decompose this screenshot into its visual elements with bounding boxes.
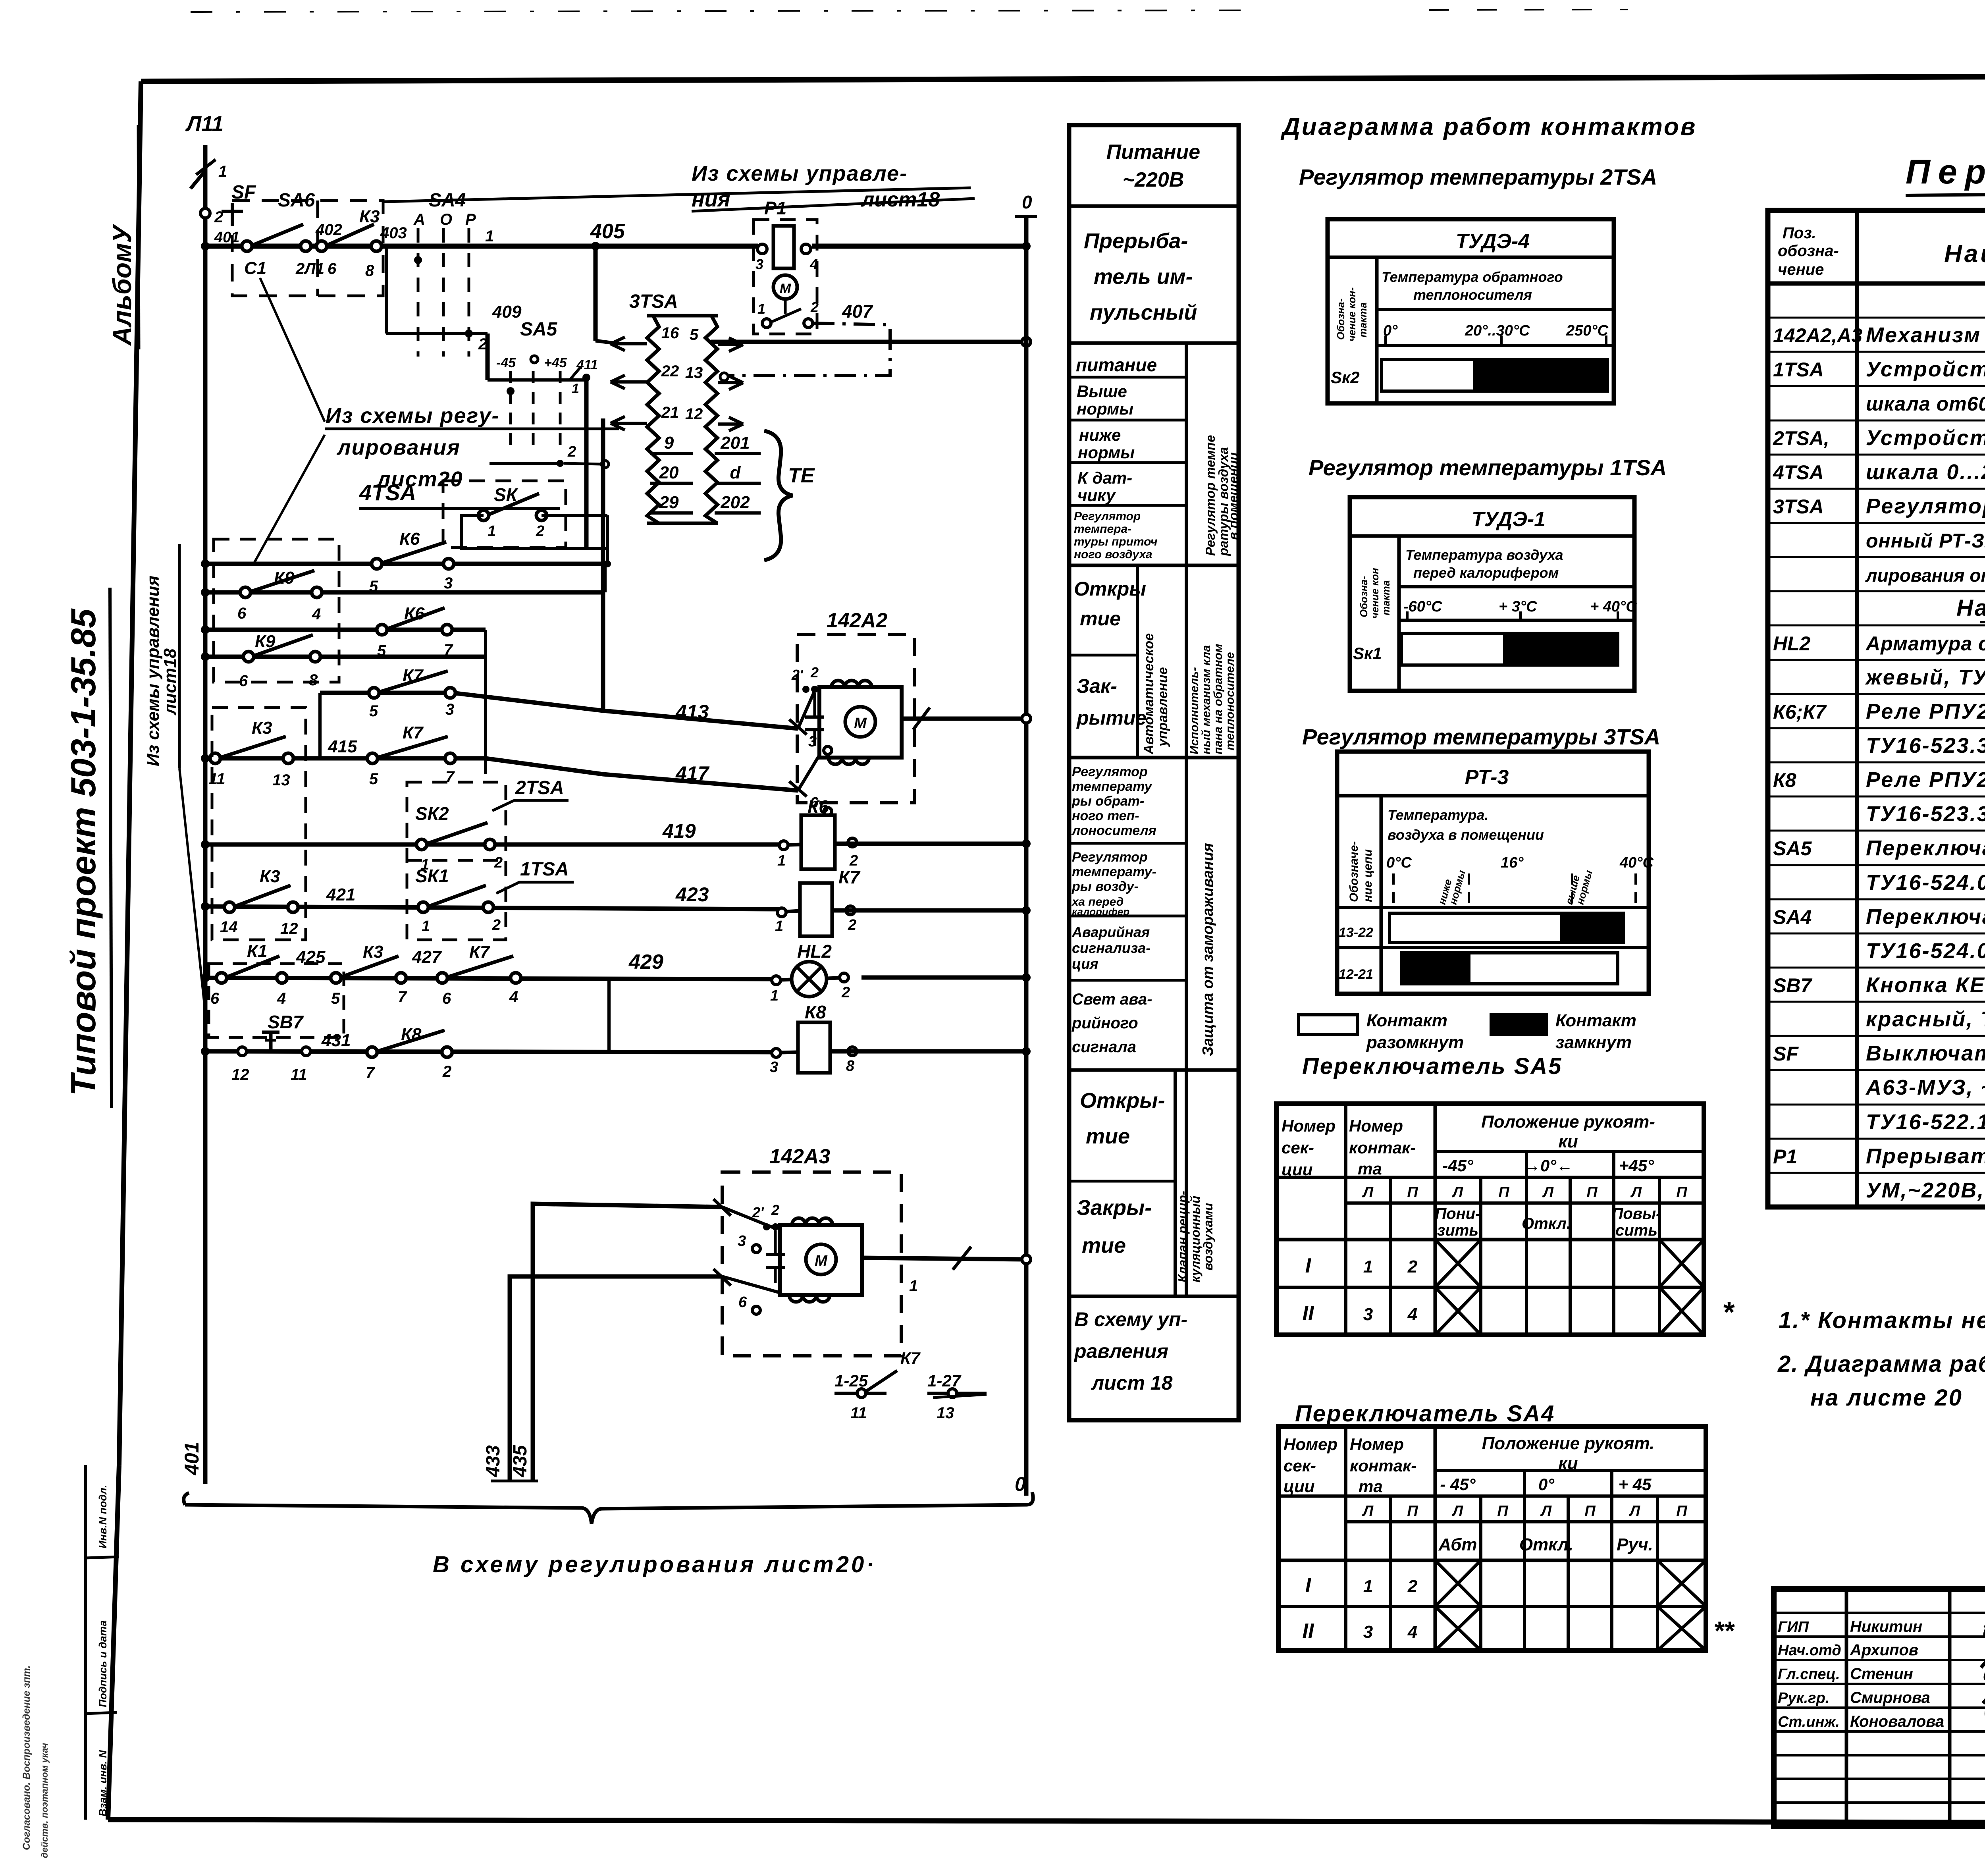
svg-text:ТУДЭ-4: ТУДЭ-4 xyxy=(1456,230,1530,253)
svg-text:Поз.: Поз. xyxy=(1783,224,1816,242)
svg-text:1: 1 xyxy=(1363,1577,1373,1596)
svg-text:замкнут: замкнут xyxy=(1555,1033,1632,1052)
svg-text:Закры-: Закры- xyxy=(1077,1196,1152,1220)
svg-text:2: 2 xyxy=(848,917,856,933)
svg-text:3ТSА: 3ТSА xyxy=(629,291,678,312)
parts list title xyxy=(1906,153,1985,195)
svg-text:К3: К3 xyxy=(363,942,384,962)
svg-text:К3: К3 xyxy=(252,718,272,738)
svg-text:2: 2 xyxy=(494,854,503,871)
svg-text:контак-: контак- xyxy=(1349,1138,1416,1157)
svg-text:перед калорифером: перед калорифером xyxy=(1413,565,1559,581)
svg-text:Л: Л xyxy=(1362,1503,1374,1519)
svg-text:409: 409 xyxy=(492,302,522,322)
svg-text:+ 3°С: + 3°С xyxy=(1499,598,1537,615)
svg-text:1: 1 xyxy=(770,987,779,1004)
SF breaker xyxy=(200,182,256,226)
wires 433 435 to actuator 142A3 xyxy=(483,1204,722,1482)
svg-text:7: 7 xyxy=(366,1064,375,1082)
svg-text:3: 3 xyxy=(770,1059,778,1076)
signal description column table xyxy=(1069,125,1241,1420)
svg-text:Р1: Р1 xyxy=(1773,1145,1797,1168)
svg-text:1: 1 xyxy=(1363,1257,1373,1276)
svg-text:Контакт: Контакт xyxy=(1555,1011,1636,1030)
svg-text:Реле РПУ2-362003УЗ,~220В: Реле РПУ2-362003УЗ,~220В xyxy=(1866,768,1985,792)
svg-text:4: 4 xyxy=(809,256,818,272)
svg-text:питание: питание xyxy=(1076,355,1157,375)
svg-text:ры обрат-: ры обрат- xyxy=(1072,794,1144,809)
svg-text:Контакт: Контакт xyxy=(1366,1011,1447,1030)
svg-text:теплоносителе: теплоносителе xyxy=(1224,652,1237,750)
svg-text:407: 407 xyxy=(842,301,873,322)
svg-text:1ТSА: 1ТSА xyxy=(520,859,569,880)
svg-text:SА4: SА4 xyxy=(1773,906,1812,928)
svg-text:Аварийная: Аварийная xyxy=(1072,924,1150,940)
svg-text:SА6: SА6 xyxy=(278,190,315,211)
svg-text:Откры: Откры xyxy=(1074,578,1146,600)
svg-text:5: 5 xyxy=(331,990,340,1007)
svg-text:142А2,А3: 142А2,А3 xyxy=(1773,324,1862,347)
svg-text:I: I xyxy=(1305,1254,1312,1277)
svg-text:та: та xyxy=(1358,1159,1382,1178)
svg-text:тие: тие xyxy=(1082,1234,1126,1257)
svg-text:чение кон: чение кон xyxy=(1369,568,1381,619)
svg-text:Подпись и дата: Подпись и дата xyxy=(97,1620,109,1707)
svg-text:-60°С: -60°С xyxy=(1403,598,1442,615)
svg-text:12: 12 xyxy=(231,1066,249,1084)
svg-text:3: 3 xyxy=(738,1233,746,1249)
svg-text:4: 4 xyxy=(1407,1622,1417,1642)
svg-text:411: 411 xyxy=(576,357,598,372)
svg-text:3: 3 xyxy=(1363,1305,1373,1324)
svg-text:ры возду-: ры возду- xyxy=(1072,879,1139,894)
svg-text:415: 415 xyxy=(328,737,357,756)
svg-text:0: 0 xyxy=(1022,192,1032,212)
impulse interrupter P1 xyxy=(754,198,873,334)
svg-text:Sк2: Sк2 xyxy=(1331,368,1360,387)
svg-text:Переключатель УП5311-С225УЗ: Переключатель УП5311-С225УЗ xyxy=(1866,905,1985,929)
svg-text:Переключатель SА4: Переключатель SА4 xyxy=(1295,1401,1555,1427)
svg-text:Диаграмма работ контактов: Диаграмма работ контактов xyxy=(1280,113,1697,141)
svg-text:12: 12 xyxy=(280,920,298,937)
svg-text:ного воздуха: ного воздуха xyxy=(1074,548,1152,561)
svg-text:Регулятор температуры 2ТSА: Регулятор температуры 2ТSА xyxy=(1299,164,1657,189)
svg-text:250°С: 250°С xyxy=(1566,322,1609,339)
auxiliary contact K7 1-27 xyxy=(927,1371,987,1422)
parts list table xyxy=(1768,210,1985,1207)
svg-text:+45°: +45° xyxy=(1619,1156,1654,1175)
svg-text:Откл.: Откл. xyxy=(1522,1215,1571,1232)
svg-text:Положение рукоят.: Положение рукоят. xyxy=(1482,1434,1655,1453)
switch SA5 position table xyxy=(1276,1104,1704,1335)
ladder row 2 (K9 6-4) xyxy=(201,564,605,623)
svg-text:Реле РПУ2-362023УЗ,~220В: Реле РПУ2-362023УЗ,~220В xyxy=(1866,700,1985,723)
svg-text:ТУ16-523.331-78: ТУ16-523.331-78 xyxy=(1866,734,1985,758)
svg-text:1: 1 xyxy=(485,228,494,245)
svg-text:разомкнут: разомкнут xyxy=(1366,1033,1464,1052)
relay K9 dashed enclosure xyxy=(214,539,339,682)
svg-text:ТЕ: ТЕ xyxy=(788,464,815,487)
svg-text:Л: Л xyxy=(1540,1503,1552,1519)
svg-text:ТУ16-524.074-75: ТУ16-524.074-75 xyxy=(1866,939,1985,963)
svg-text:402: 402 xyxy=(315,221,342,239)
svg-text:+ 45: + 45 xyxy=(1619,1475,1652,1494)
svg-text:ции: ции xyxy=(1284,1477,1314,1496)
svg-text:Перечень элементов: Перечень элементов xyxy=(1906,153,1985,191)
auxiliary contact K7 1-25 xyxy=(834,1349,921,1422)
svg-text:SА5: SА5 xyxy=(520,319,558,340)
svg-text:П: П xyxy=(1497,1503,1508,1519)
ladder row 429 (K1, 425, K3, 427, K7) xyxy=(201,941,776,1007)
svg-text:В схему регулирования лист20·: В схему регулирования лист20· xyxy=(433,1552,877,1577)
svg-text:12-21: 12-21 xyxy=(1339,967,1373,982)
svg-text:Пони-: Пони- xyxy=(1435,1205,1480,1222)
thermal regulator 3TSA zigzag xyxy=(143,162,1037,1577)
svg-text:сигнализа-: сигнализа- xyxy=(1072,940,1151,956)
row 401-405 main wire xyxy=(205,244,758,249)
svg-text:1: 1 xyxy=(218,163,227,180)
top edge dash-dot marks xyxy=(191,10,1243,12)
svg-text:Откры-: Откры- xyxy=(1080,1089,1165,1112)
svg-text:4ТSА: 4ТSА xyxy=(1773,461,1824,484)
svg-text:воздухами: воздухами xyxy=(1201,1203,1215,1271)
title block xyxy=(1713,1589,1985,1870)
svg-text:Наименование: Наименование xyxy=(1944,240,1985,268)
svg-text:На щите управления: На щите управления xyxy=(1956,595,1985,621)
svg-text:Типовой проект 503-1-35.85: Типовой проект 503-1-35.85 xyxy=(64,608,103,1096)
svg-text:Л: Л xyxy=(1630,1184,1642,1201)
svg-text:SF: SF xyxy=(1773,1043,1799,1065)
svg-text:2: 2 xyxy=(841,984,850,1001)
svg-text:2: 2 xyxy=(1407,1257,1418,1276)
svg-text:8: 8 xyxy=(846,1058,855,1074)
svg-text:201: 201 xyxy=(720,433,750,453)
wire zigzag-left down to 413 row xyxy=(601,418,605,711)
svg-text:+ 40°С: + 40°С xyxy=(1590,598,1637,615)
svg-text:2: 2 xyxy=(771,1202,779,1218)
svg-text:онный РТ-ЗУ4.2,град23, пределы: онный РТ-ЗУ4.2,град23, пределы регу- xyxy=(1866,530,1985,552)
svg-text:I: I xyxy=(1305,1574,1312,1597)
svg-text:Регулятор: Регулятор xyxy=(1072,850,1148,865)
svg-text:А63-МУЗ, ~220В, Iр=2.0А, Отс.1: А63-МУЗ, ~220В, Iр=2.0А, Отс.10 xyxy=(1865,1076,1985,1099)
svg-text:202: 202 xyxy=(720,493,750,512)
svg-text:К3: К3 xyxy=(260,867,280,886)
svg-text:421: 421 xyxy=(326,885,355,904)
svg-text:С1: С1 xyxy=(244,258,266,278)
svg-text:лоносителя: лоносителя xyxy=(1071,823,1156,838)
svg-text:435: 435 xyxy=(510,1445,531,1477)
svg-text:4: 4 xyxy=(1407,1305,1417,1324)
svg-text:управление: управление xyxy=(1155,667,1170,747)
svg-text:Коновалова: Коновалова xyxy=(1850,1713,1944,1730)
svg-text:433: 433 xyxy=(483,1445,504,1477)
svg-text:П: П xyxy=(1498,1184,1509,1201)
svg-text:Прерыба-: Прерыба- xyxy=(1084,229,1188,253)
svg-text:ного теп-: ного теп- xyxy=(1072,808,1139,823)
svg-text:П: П xyxy=(1676,1184,1687,1201)
svg-text:Исполнитель-: Исполнитель- xyxy=(1188,667,1201,754)
svg-text:М: М xyxy=(780,281,791,296)
notes text xyxy=(1722,1296,1985,1411)
thermostat 4TSA with contact SK xyxy=(359,480,607,549)
svg-text:Номер: Номер xyxy=(1284,1435,1337,1454)
svg-text:обозна-: обозна- xyxy=(1778,242,1839,260)
svg-text:413: 413 xyxy=(675,701,709,723)
svg-text:20: 20 xyxy=(659,463,679,482)
svg-text:температу: температу xyxy=(1072,779,1153,794)
svg-text:Архипов: Архипов xyxy=(1850,1641,1918,1659)
svg-text:2: 2 xyxy=(567,443,576,460)
svg-text:Sк1: Sк1 xyxy=(1353,644,1382,663)
svg-text:3: 3 xyxy=(1363,1622,1373,1642)
svg-text:1: 1 xyxy=(757,301,765,317)
svg-text:1.* Контакты не используются: 1.* Контакты не используются xyxy=(1779,1307,1985,1333)
svg-text:6: 6 xyxy=(210,990,220,1007)
svg-text:Нач.отд: Нач.отд xyxy=(1778,1642,1841,1659)
svg-text:шкала 0...250°С, ТУ25-02-28/07: шкала 0...250°С, ТУ25-02-28/074-78 xyxy=(1866,460,1985,484)
right bus 0 wire xyxy=(1024,216,1029,1496)
svg-text:11: 11 xyxy=(850,1404,867,1422)
svg-text:Рук.гр.: Рук.гр. xyxy=(1778,1690,1829,1706)
svg-text:равления: равления xyxy=(1073,1340,1168,1362)
svg-text:SВ7: SВ7 xyxy=(268,1012,304,1032)
svg-text:Регулятор температуры 1ТSА: Регулятор температуры 1ТSА xyxy=(1309,455,1667,480)
svg-text:зить: зить xyxy=(1437,1222,1478,1239)
svg-text:Переключатель SА5: Переключатель SА5 xyxy=(1302,1053,1562,1079)
svg-text:Выключатель автоматический: Выключатель автоматический xyxy=(1866,1041,1985,1065)
svg-text:4: 4 xyxy=(509,988,518,1006)
relay coil K7 xyxy=(775,867,1031,936)
svg-text:SК2: SК2 xyxy=(415,803,449,824)
svg-text:Устройство терморегулирующее Т: Устройство терморегулирующее ТУДЭ-1 xyxy=(1866,357,1985,381)
brace to regulation circuit sheet 20 xyxy=(184,1492,1033,1577)
ladder row 3 (K6 5-7) xyxy=(201,604,486,774)
svg-text:Из схемы управления: Из схемы управления xyxy=(143,576,163,766)
svg-text:тель им-: тель им- xyxy=(1094,265,1193,289)
svg-text:Абт: Абт xyxy=(1438,1535,1477,1554)
ladder row 4 (K9 6-8) xyxy=(201,632,486,690)
svg-text:Ст.инж.: Ст.инж. xyxy=(1778,1714,1840,1730)
svg-text:Арматура светосигнальная АСЛ11: Арматура светосигнальная АСЛ11У2, оран- xyxy=(1865,632,1985,655)
svg-text:К1: К1 xyxy=(247,941,268,961)
svg-text:423: 423 xyxy=(675,883,709,906)
svg-text:Температура воздуха: Температура воздуха xyxy=(1405,547,1563,563)
svg-text:Руч.: Руч. xyxy=(1617,1535,1653,1554)
label from regulation circuit sheet 20 xyxy=(254,278,619,563)
svg-text:5: 5 xyxy=(369,702,378,720)
svg-text:К7: К7 xyxy=(900,1349,921,1367)
svg-text:8: 8 xyxy=(309,671,318,689)
svg-text:3ТSА: 3ТSА xyxy=(1773,496,1824,518)
svg-text:нормы: нормы xyxy=(1077,399,1133,418)
svg-text:2: 2 xyxy=(536,523,544,540)
svg-text:ния: ния xyxy=(692,187,730,211)
svg-text:SВ7: SВ7 xyxy=(1773,974,1812,997)
svg-text:РТ-3: РТ-3 xyxy=(1465,766,1509,789)
svg-text:В схему уп-: В схему уп- xyxy=(1074,1308,1187,1330)
svg-text:ТУ16-524.074-75: ТУ16-524.074-75 xyxy=(1866,871,1985,895)
svg-text:УМ,~220В, ТУ50-58-76: УМ,~220В, ТУ50-58-76 xyxy=(1866,1178,1985,1202)
svg-text:II: II xyxy=(1303,1302,1314,1325)
junction to SA5/3TSA feed xyxy=(591,242,600,251)
svg-text:→0°←: →0°← xyxy=(1524,1156,1573,1175)
svg-text:ный механизм кла: ный механизм кла xyxy=(1200,645,1213,754)
svg-text:Регулятор: Регулятор xyxy=(1072,764,1148,779)
svg-text:0°: 0° xyxy=(1538,1475,1555,1494)
svg-text:тие: тие xyxy=(1080,607,1121,630)
svg-text:Устройство терморегулирующее Т: Устройство терморегулирующее ТУДЭ-4 xyxy=(1866,426,1985,450)
svg-text:Л: Л xyxy=(1451,1184,1463,1201)
svg-text:сигнала: сигнала xyxy=(1072,1038,1136,1056)
svg-text:429: 429 xyxy=(628,951,663,974)
svg-text:13-22: 13-22 xyxy=(1339,925,1373,940)
svg-text:Л11: Л11 xyxy=(185,112,224,136)
svg-text:2ТSА: 2ТSА xyxy=(515,777,564,798)
svg-text:П: П xyxy=(1584,1503,1596,1519)
svg-text:6: 6 xyxy=(442,990,451,1007)
svg-text:Смирнова: Смирнова xyxy=(1850,1689,1930,1706)
svg-text:13: 13 xyxy=(272,771,290,789)
left margin bottom strip xyxy=(21,1465,119,1858)
svg-text:403: 403 xyxy=(380,224,407,242)
svg-text:431: 431 xyxy=(321,1031,351,1050)
svg-text:142А2: 142А2 xyxy=(827,609,887,632)
svg-text:красный, ТУ16-526.407-79: красный, ТУ16-526.407-79 xyxy=(1866,1007,1985,1031)
svg-text:Из схемы управле-: Из схемы управле- xyxy=(692,162,908,185)
svg-text:ция: ция xyxy=(1072,956,1098,972)
wire 405 junction into 3TSA xyxy=(595,341,613,343)
svg-text:9: 9 xyxy=(664,433,674,453)
svg-text:6: 6 xyxy=(237,605,247,622)
relay coil K6 xyxy=(777,796,1031,869)
node 0 top of right bus xyxy=(1015,192,1037,216)
svg-text:Взам. инв. N: Взам. инв. N xyxy=(97,1750,109,1816)
svg-text:такта: такта xyxy=(1380,580,1392,615)
svg-text:Никитин: Никитин xyxy=(1850,1618,1922,1635)
svg-text:21: 21 xyxy=(661,404,679,421)
svg-text:1: 1 xyxy=(422,918,430,935)
svg-text:П: П xyxy=(1407,1184,1418,1201)
svg-text:НL2: НL2 xyxy=(797,941,832,962)
svg-text:К8: К8 xyxy=(805,1002,826,1022)
svg-text:8: 8 xyxy=(365,262,374,280)
svg-text:шкала от60°С до+40°С,ТУ25-02.2: шкала от60°С до+40°С,ТУ25-02.281074-.78 xyxy=(1866,393,1985,415)
wire between rows 429 and 431 xyxy=(607,978,611,1052)
svg-text:нормы: нормы xyxy=(1078,443,1135,462)
svg-text:3: 3 xyxy=(444,575,453,592)
svg-text:3: 3 xyxy=(445,701,454,718)
svg-text:Переключатель УП5311-А225УЗ: Переключатель УП5311-А225УЗ xyxy=(1866,836,1985,860)
svg-text:1-25: 1-25 xyxy=(834,1371,868,1390)
svg-text:К7: К7 xyxy=(469,942,491,962)
rotated label from control circuit sheet 18 left xyxy=(143,544,205,1012)
svg-text:Регулятор темпе: Регулятор темпе xyxy=(1203,435,1218,556)
svg-text:**: ** xyxy=(1713,1616,1735,1645)
svg-text:темпера-: темпера- xyxy=(1074,523,1131,536)
svg-text:14: 14 xyxy=(220,918,238,936)
svg-text:Регулятор температуры 3ТSА: Регулятор температуры 3ТSА xyxy=(1302,724,1660,749)
contact C1 xyxy=(214,224,311,278)
svg-text:Из схемы регу-: Из схемы регу- xyxy=(326,404,499,428)
svg-text:Клапан рецир-: Клапан рецир- xyxy=(1176,1191,1190,1282)
svg-text:142А3: 142А3 xyxy=(769,1145,830,1168)
svg-text:ниже: ниже xyxy=(1079,426,1121,444)
svg-text:6: 6 xyxy=(239,672,248,690)
svg-text:2: 2 xyxy=(1407,1577,1418,1596)
svg-text:13: 13 xyxy=(937,1404,954,1422)
svg-text:К6: К6 xyxy=(399,529,420,549)
svg-text:11: 11 xyxy=(291,1066,307,1084)
relay K1/SB7 dashed enclosure xyxy=(209,964,344,1037)
svg-text:427: 427 xyxy=(412,947,442,967)
svg-text:Температура.: Температура. xyxy=(1388,807,1488,823)
svg-text:Согласовано. Воспроизведение з: Согласовано. Воспроизведение зпт. xyxy=(21,1666,32,1850)
svg-text:1-27: 1-27 xyxy=(927,1371,962,1390)
svg-text:Обозначе-: Обозначе- xyxy=(1347,841,1361,902)
svg-text:2: 2 xyxy=(492,917,501,933)
svg-text:2ТSА,: 2ТSА, xyxy=(1773,427,1829,449)
svg-text:40°С: 40°С xyxy=(1619,854,1654,871)
left bus 401 wire xyxy=(203,145,208,1484)
thermostat diagram TUDE-1 xyxy=(1350,497,1637,691)
svg-text:16: 16 xyxy=(661,324,679,342)
ladder row 419 (SK2) xyxy=(201,803,784,873)
svg-text:ки: ки xyxy=(1558,1132,1578,1151)
switch SA4 position table xyxy=(1278,1427,1706,1650)
svg-text:К7: К7 xyxy=(838,867,861,887)
svg-text:такта: такта xyxy=(1357,303,1369,337)
svg-text:О: О xyxy=(440,211,452,228)
switch SA6 dashed enclosure xyxy=(232,190,383,296)
svg-text:П: П xyxy=(1407,1503,1418,1519)
svg-text:Л: Л xyxy=(1362,1184,1374,1201)
svg-text:Инв.N подл.: Инв.N подл. xyxy=(97,1485,109,1548)
svg-text:-45°: -45° xyxy=(1442,1156,1474,1175)
svg-text:чение: чение xyxy=(1778,261,1824,278)
svg-text:+45: +45 xyxy=(544,355,567,370)
svg-text:рытие: рытие xyxy=(1076,707,1147,729)
svg-text:лист 18: лист 18 xyxy=(1091,1372,1173,1394)
svg-text:К3: К3 xyxy=(359,207,380,226)
svg-text:сек-: сек- xyxy=(1282,1138,1314,1157)
svg-text:1: 1 xyxy=(909,1277,918,1295)
thermostat 2TSA/1TSA dashed enclosure xyxy=(407,777,574,940)
svg-text:Регулятортемпературы трехпозиц: Регулятортемпературы трехпозици- xyxy=(1866,494,1985,518)
svg-text:М: М xyxy=(854,715,867,732)
junction circle at 13-arrow xyxy=(720,373,728,381)
svg-text:13: 13 xyxy=(685,364,703,382)
svg-text:Р: Р xyxy=(465,211,476,228)
svg-text:Свет ава-: Свет ава- xyxy=(1072,991,1152,1008)
svg-text:тие: тие xyxy=(1086,1124,1130,1148)
svg-text:ТУ16-522.110-74: ТУ16-522.110-74 xyxy=(1866,1110,1985,1134)
svg-text:Регулятор: Регулятор xyxy=(1074,510,1141,523)
svg-text:лирования от0до40°С,ТУ25-02(34: лирования от0до40°С,ТУ25-02(342.574.036)… xyxy=(1865,565,1985,586)
svg-text:Номер: Номер xyxy=(1282,1116,1336,1135)
svg-text:куляционный: куляционный xyxy=(1188,1196,1203,1282)
svg-text:2: 2 xyxy=(442,1063,451,1080)
svg-text:Номер: Номер xyxy=(1349,1116,1403,1135)
svg-text:5: 5 xyxy=(369,770,378,788)
relay coil K8 xyxy=(770,1002,1031,1076)
svg-text:22: 22 xyxy=(661,362,679,380)
svg-text:5: 5 xyxy=(690,326,699,343)
svg-text:Защита от замораживания: Защита от замораживания xyxy=(1200,843,1216,1056)
svg-text:SК1: SК1 xyxy=(415,866,449,886)
svg-text:жевый, ТУ16.535.681-76: жевый, ТУ16.535.681-76 xyxy=(1865,665,1985,689)
thermostat diagram RT-3 xyxy=(1337,752,1654,994)
cam switch SA5 xyxy=(488,319,609,468)
